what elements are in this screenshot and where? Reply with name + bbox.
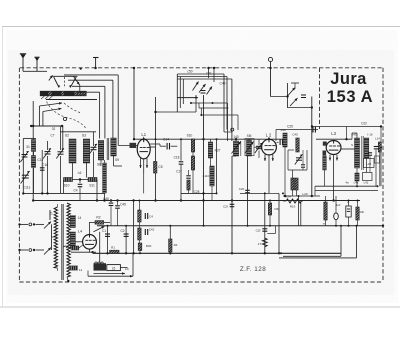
transformer core 1	[61, 204, 63, 280]
junction	[340, 225, 342, 227]
resistor R2 (horizontal)	[95, 221, 104, 225]
chassis border left (dashed)	[18, 68, 20, 282]
wire	[356, 133, 358, 138]
junction	[133, 138, 135, 140]
wire	[284, 147, 286, 152]
junction	[380, 125, 382, 127]
plug pin 2b	[33, 249, 35, 251]
wire	[269, 192, 279, 194]
junction	[348, 225, 350, 227]
capacitor C2b	[245, 190, 250, 192]
wire bend h	[177, 73, 224, 75]
core line	[106, 138, 108, 160]
wire	[258, 139, 260, 145]
variable capacitor C11b2	[20, 151, 28, 162]
pin L2 c	[272, 154, 274, 161]
capacitor C17b	[186, 176, 190, 178]
resistor R22	[296, 138, 299, 152]
wire	[324, 170, 326, 186]
coil L7 (long)	[103, 163, 107, 193]
resistor R24b	[295, 178, 298, 190]
coil S1a	[31, 140, 35, 152]
capacitor C4	[78, 184, 83, 186]
junction	[216, 192, 218, 194]
wire	[104, 193, 106, 201]
wire	[200, 108, 202, 115]
junction	[32, 199, 34, 201]
junction	[345, 138, 347, 140]
wire switch output bus	[46, 99, 97, 101]
pin L4 cathode	[89, 249, 91, 252]
junction	[91, 251, 93, 253]
wire	[351, 133, 353, 139]
capacitor C18	[179, 162, 184, 164]
junction	[235, 138, 237, 140]
resistor R9	[187, 180, 190, 190]
removed	[276, 144, 283, 146]
wire	[89, 222, 95, 224]
coil S15	[247, 140, 252, 156]
wire	[138, 240, 140, 243]
core line	[108, 138, 110, 160]
wire	[79, 245, 83, 248]
wire grid L4	[75, 241, 82, 243]
wire cathode link	[71, 251, 96, 253]
wire	[291, 82, 299, 84]
junction	[311, 106, 313, 108]
junction	[278, 252, 280, 254]
band contact 1	[39, 102, 62, 106]
variable capacitor C11a	[21, 171, 30, 184]
wire	[150, 143, 160, 145]
junction on bottom border	[67, 280, 69, 282]
junction	[116, 199, 118, 201]
wire	[288, 107, 312, 109]
wire bend v	[117, 75, 119, 139]
wire	[60, 156, 62, 193]
junction	[356, 225, 358, 227]
junction	[203, 225, 205, 227]
capacitor C24	[280, 140, 282, 145]
resistor R21	[324, 202, 327, 220]
junction	[311, 125, 313, 127]
wire	[277, 141, 279, 143]
band contact 2	[43, 108, 62, 112]
wire	[223, 126, 225, 132]
earth stub	[93, 58, 99, 69]
junction	[247, 225, 249, 227]
resistor R4	[169, 239, 172, 252]
wire plate L1	[150, 146, 155, 148]
wire	[325, 220, 327, 226]
node L6	[79, 178, 81, 180]
electrolytic C40	[334, 213, 339, 220]
wire mains 2	[20, 249, 29, 251]
wire section link	[31, 125, 63, 127]
coil S2 (double winding)	[69, 139, 76, 163]
wire	[268, 137, 270, 140]
output transformer bumps	[95, 262, 104, 263]
wire	[159, 144, 161, 146]
junction	[231, 252, 233, 254]
wire	[213, 68, 215, 82]
junction	[30, 125, 32, 127]
wire bend v	[231, 79, 233, 141]
wire	[366, 158, 368, 173]
wire	[192, 152, 194, 156]
wire	[143, 137, 145, 139]
junction border	[80, 68, 82, 70]
wire	[125, 226, 127, 254]
switch bar frame	[40, 91, 86, 96]
wire	[227, 103, 229, 141]
wire	[63, 180, 65, 194]
junction	[213, 67, 215, 69]
wire bend h	[177, 78, 232, 80]
capacitor C28b	[262, 229, 267, 231]
capacitor C42	[145, 229, 147, 235]
wire	[235, 139, 237, 141]
wire jog	[267, 233, 275, 235]
wire	[357, 220, 359, 226]
arrowhead	[122, 272, 125, 274]
chassis border right (dashed)	[382, 68, 384, 282]
wire	[79, 180, 81, 184]
osc switch contact 2	[199, 84, 206, 93]
junction	[377, 185, 379, 187]
volume pot wiper	[94, 226, 105, 232]
trimmer C26	[295, 154, 303, 164]
wire phono rail	[311, 97, 313, 197]
wire	[182, 79, 184, 104]
wire pot to output transformer	[99, 232, 101, 263]
wire	[62, 126, 64, 150]
coil L16 secondary	[364, 138, 369, 158]
wire	[60, 126, 62, 150]
wire	[284, 141, 285, 143]
small box R15	[375, 156, 380, 163]
junction	[264, 192, 266, 194]
wire	[110, 201, 112, 203]
wire antenna input	[23, 70, 47, 72]
junction	[41, 192, 43, 194]
junction	[46, 192, 48, 194]
junction	[96, 199, 98, 201]
junction	[169, 252, 171, 254]
junction lamp-border	[269, 67, 271, 69]
junction	[61, 125, 63, 127]
arrowhead	[130, 275, 133, 277]
coil S9	[111, 138, 117, 156]
wire bend v	[99, 92, 101, 138]
wire	[348, 217, 350, 226]
pin arrowhead	[146, 165, 148, 168]
junction	[154, 111, 156, 113]
capacitor C4b	[145, 213, 147, 219]
page rule left	[2, 27, 4, 308]
wave mark 2	[66, 247, 70, 248]
wire	[237, 115, 239, 130]
capacitor C14	[167, 143, 169, 150]
tuning linkage (dashed curve)	[47, 102, 87, 130]
junction	[110, 199, 112, 201]
wire bend h	[72, 85, 105, 87]
wire	[67, 277, 68, 281]
coil S8	[98, 141, 104, 161]
coil S11	[88, 177, 97, 181]
transformer primary winding	[54, 207, 57, 268]
wire det rail	[133, 201, 135, 254]
wire AVC bus	[134, 138, 285, 140]
junction	[18, 223, 20, 225]
bus ground y253	[93, 252, 341, 254]
pin L3 c	[336, 155, 338, 161]
capacitor C41 (boxed)	[346, 206, 351, 217]
wire	[156, 111, 197, 113]
core line	[362, 136, 364, 170]
trimmer C13	[89, 144, 97, 154]
resistor R17	[138, 228, 141, 240]
pin arrowhead	[272, 158, 274, 161]
wire	[292, 190, 294, 196]
coil L3 cathode	[323, 156, 327, 170]
coil heater winding	[70, 216, 75, 228]
wire	[79, 188, 81, 201]
junction	[269, 200, 271, 202]
wire	[216, 139, 218, 193]
wire	[33, 168, 35, 194]
wire	[335, 220, 337, 226]
hatching under bar	[41, 96, 53, 99]
antenna A2	[34, 57, 39, 71]
junction	[202, 192, 204, 194]
wire	[232, 155, 236, 157]
junction	[104, 200, 106, 202]
wire	[201, 114, 238, 116]
junction	[280, 252, 282, 254]
page rule top	[2, 26, 400, 28]
wave mark	[64, 246, 68, 247]
coil L9	[208, 142, 212, 158]
pin arrowhead	[336, 158, 338, 161]
wire	[208, 68, 210, 78]
contact arrow M	[49, 75, 53, 80]
pin arrowhead	[264, 158, 266, 161]
junction	[207, 67, 209, 69]
wire	[104, 222, 110, 224]
junction	[286, 95, 288, 97]
mains switch 2	[44, 248, 51, 255]
plug pin 1b	[33, 223, 35, 225]
wire	[179, 77, 181, 109]
wire	[86, 163, 88, 178]
wire	[275, 130, 277, 142]
switch funnel top	[53, 75, 78, 77]
wire bend v	[223, 74, 225, 126]
wire	[180, 139, 182, 161]
junction	[143, 138, 145, 140]
switch funnel right arm	[70, 77, 76, 88]
coil cathode winding	[72, 246, 79, 250]
wire	[302, 150, 304, 164]
bus B+ y200	[33, 200, 360, 202]
wire	[379, 152, 381, 186]
wire	[269, 215, 271, 226]
wire bend v	[226, 77, 228, 130]
pin arrowhead	[329, 158, 331, 161]
wire	[278, 193, 280, 253]
mains switch 1	[44, 222, 51, 229]
capacitor C30	[374, 147, 378, 149]
junction	[132, 199, 134, 201]
wire	[94, 273, 126, 275]
wire	[117, 201, 119, 206]
wire	[114, 165, 123, 167]
wire	[177, 97, 198, 99]
capacitor C25	[313, 127, 315, 133]
cathode blob L3	[323, 151, 327, 156]
title box left border (dashed)	[319, 68, 321, 129]
wire	[41, 150, 43, 193]
wire C25 link	[276, 129, 318, 131]
pin L1 c	[146, 158, 148, 168]
wire	[38, 106, 40, 126]
wire	[33, 152, 35, 156]
tuning linkage 2 (dashed curve)	[64, 103, 80, 113]
junction	[138, 200, 140, 202]
wire	[356, 168, 358, 173]
resistor R26	[356, 207, 359, 220]
junction	[18, 249, 20, 251]
coil L11b	[210, 166, 214, 186]
wire	[301, 200, 304, 202]
switch funnel arrowhead L	[58, 85, 60, 87]
pin L3 b down	[333, 155, 335, 201]
switch bar tick 4	[85, 91, 87, 96]
wire bottom link	[23, 192, 105, 194]
wire	[138, 222, 140, 228]
junction	[357, 200, 359, 202]
wire	[198, 103, 200, 108]
tube L2	[262, 139, 277, 155]
wire box	[287, 150, 289, 170]
grid cap L1	[130, 143, 137, 148]
tube L1	[137, 139, 150, 159]
wire	[100, 160, 102, 166]
wire	[96, 180, 98, 201]
coil L16 primary	[355, 138, 360, 168]
resistor R14	[378, 142, 381, 152]
wire	[169, 226, 171, 239]
wire det bus 2	[315, 189, 378, 191]
wire	[283, 195, 320, 197]
osc switch contact 3	[207, 87, 213, 95]
capacitor C17	[40, 168, 45, 170]
wire mid vertical	[203, 95, 205, 226]
wire bend h	[68, 79, 113, 81]
wire	[264, 193, 266, 253]
wire section top	[61, 131, 97, 133]
switch bar segment 3	[64, 91, 75, 95]
coil bias winding	[70, 266, 78, 270]
trimmer C12	[56, 148, 64, 158]
resistor R6	[268, 203, 271, 215]
wire	[113, 156, 115, 166]
switch funnel left arm	[54, 77, 59, 88]
junction	[212, 102, 214, 104]
wire	[190, 102, 228, 104]
resistor R8	[191, 156, 194, 170]
box L132	[363, 173, 373, 181]
resistor R5	[154, 162, 157, 174]
coil S1b	[31, 156, 35, 168]
wire	[224, 131, 232, 133]
junction	[284, 195, 286, 197]
phono contact 1	[288, 88, 295, 96]
capacitor C31	[368, 153, 372, 155]
wire	[117, 209, 119, 226]
junction	[169, 225, 171, 227]
switch axis (dashed)	[64, 77, 66, 88]
resistor R30	[138, 243, 142, 251]
scan wash	[8, 50, 394, 295]
wire	[248, 138, 250, 141]
wire	[188, 190, 190, 193]
pin L2 b down	[268, 155, 270, 194]
coil L132	[355, 173, 359, 181]
wire from border	[133, 68, 135, 140]
wire	[335, 196, 337, 213]
junction	[382, 225, 384, 227]
wire	[188, 170, 190, 175]
wire	[57, 204, 59, 207]
fuse symbol	[49, 210, 51, 220]
wire	[93, 152, 95, 178]
junction	[200, 114, 202, 116]
wire	[171, 145, 178, 147]
wire	[284, 152, 286, 196]
junction	[202, 138, 204, 140]
junction	[154, 199, 156, 201]
dial lamp	[268, 57, 272, 61]
wire top right link	[312, 126, 381, 128]
node circle D	[231, 128, 234, 131]
junction	[335, 225, 337, 227]
wire	[211, 186, 213, 201]
coil S16	[283, 133, 287, 147]
wire	[79, 85, 81, 91]
capacitor C2	[124, 234, 129, 236]
wire	[199, 107, 228, 109]
output transformer core	[94, 263, 107, 270]
junction	[348, 200, 350, 202]
capacitor C21	[230, 204, 235, 206]
junction	[311, 195, 313, 197]
wire	[139, 251, 141, 254]
jack circle	[63, 117, 66, 120]
trimmer C50	[201, 91, 206, 94]
junction	[332, 199, 334, 201]
wire mains 2c	[36, 249, 45, 251]
wire	[93, 132, 95, 146]
junction	[356, 185, 358, 187]
contact arm	[74, 77, 80, 85]
wire bend h	[64, 74, 118, 76]
wire	[314, 186, 316, 196]
wire	[287, 83, 289, 108]
junction	[268, 138, 270, 140]
wire	[247, 156, 249, 226]
